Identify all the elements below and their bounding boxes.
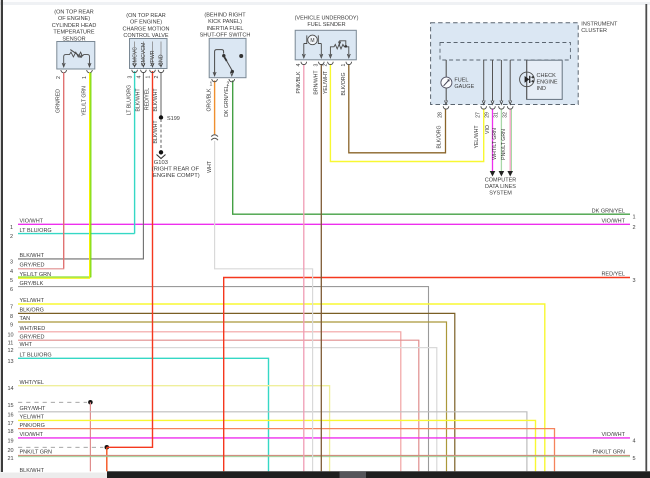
svg-text:YEL/LT GRN: YEL/LT GRN bbox=[20, 272, 52, 278]
svg-text:1: 1 bbox=[210, 82, 213, 88]
svg-text:M: M bbox=[310, 38, 314, 44]
svg-text:ENGINE: ENGINE bbox=[537, 80, 558, 86]
check engine ind LED bbox=[527, 60, 563, 99]
svg-text:OF ENGINE): OF ENGINE) bbox=[130, 20, 162, 26]
wire DK GRN/YEL right1 bbox=[233, 81, 636, 221]
svg-text:ORG/BLK: ORG/BLK bbox=[207, 88, 213, 112]
svg-text:19: 19 bbox=[7, 438, 13, 444]
svg-text:TEMPERATURE: TEMPERATURE bbox=[53, 30, 94, 36]
wire PNK/LT GRN cluster pin32 bbox=[501, 109, 512, 172]
wire dashed row15 bbox=[7, 402, 87, 409]
svg-text:1: 1 bbox=[145, 75, 151, 78]
svg-text:1: 1 bbox=[82, 76, 88, 79]
wire BLK/WHT valve GND to S199 bbox=[153, 72, 161, 117]
svg-text:VIO/WHT: VIO/WHT bbox=[601, 432, 625, 438]
svg-text:(RIGHT REAR OF: (RIGHT REAR OF bbox=[152, 166, 200, 172]
wire dashed row20 bbox=[7, 447, 103, 454]
svg-text:3: 3 bbox=[313, 63, 319, 66]
svg-text:CMCVC: CMCVC bbox=[132, 47, 138, 66]
svg-text:BLK/ORG: BLK/ORG bbox=[20, 308, 44, 314]
component cylinder head temperature sensor bbox=[52, 10, 97, 279]
frame bottom light strip bbox=[0, 473, 107, 478]
svg-text:CLUSTER: CLUSTER bbox=[581, 28, 607, 34]
svg-text:9: 9 bbox=[10, 323, 13, 329]
wire GRN/RED sensor pin2 label bbox=[56, 89, 62, 113]
frame top strip bbox=[0, 0, 650, 5]
svg-text:21: 21 bbox=[7, 456, 13, 462]
svg-text:4: 4 bbox=[136, 75, 142, 78]
wire YEL/LT GRN sensor pin1 bbox=[90, 73, 92, 278]
wire WHT row12 bbox=[7, 342, 436, 472]
wire GRY/WHT row16 bbox=[7, 406, 526, 471]
svg-text:15: 15 bbox=[7, 403, 13, 409]
svg-text:31: 31 bbox=[494, 112, 500, 118]
svg-text:(BEHIND RIGHT: (BEHIND RIGHT bbox=[204, 13, 246, 19]
svg-text:29: 29 bbox=[485, 112, 491, 118]
svg-text:ENGINE COMPT): ENGINE COMPT) bbox=[153, 173, 200, 179]
svg-text:3: 3 bbox=[128, 75, 134, 78]
svg-text:20: 20 bbox=[7, 448, 13, 454]
svg-text:DK GRN/YEL: DK GRN/YEL bbox=[224, 85, 230, 117]
svg-text:VIO/WHT: VIO/WHT bbox=[20, 219, 44, 225]
svg-text:2: 2 bbox=[322, 63, 328, 66]
wire GRY/RED row11 bbox=[8, 334, 419, 471]
svg-text:28: 28 bbox=[438, 112, 444, 118]
svg-text:4: 4 bbox=[296, 63, 302, 66]
svg-text:7: 7 bbox=[10, 305, 13, 311]
svg-text:18: 18 bbox=[7, 429, 13, 435]
svg-text:BLK/ORG: BLK/ORG bbox=[437, 125, 443, 148]
svg-text:(ON TOP REAR: (ON TOP REAR bbox=[54, 10, 93, 16]
wire RED/YEL from valve VPWR bbox=[107, 71, 153, 447]
svg-text:SHUT-OFF SWITCH: SHUT-OFF SWITCH bbox=[200, 33, 251, 39]
wire YEL/LT GRN row5 bbox=[10, 73, 91, 284]
wire DK GRN/YEL inertia pin2 label bbox=[224, 85, 230, 117]
svg-text:5: 5 bbox=[10, 278, 13, 284]
svg-text:BLK/WHT: BLK/WHT bbox=[20, 253, 45, 259]
svg-text:VIO: VIO bbox=[485, 125, 491, 134]
svg-text:11: 11 bbox=[8, 341, 14, 347]
svg-text:10: 10 bbox=[7, 332, 13, 338]
svg-text:4: 4 bbox=[10, 269, 13, 275]
svg-text:3: 3 bbox=[10, 259, 13, 265]
svg-text:CHECK: CHECK bbox=[537, 73, 557, 79]
wire YEL/WHT row17 bbox=[7, 415, 535, 472]
svg-text:WHT: WHT bbox=[207, 160, 213, 173]
svg-text:PNK/LT GRN: PNK/LT GRN bbox=[20, 450, 53, 456]
wire GRN/RED sensor pin2 bbox=[63, 73, 65, 269]
wire PNK/BLK from fuel sender pin4 bbox=[296, 64, 304, 471]
wire WHT/YEL row14 bbox=[7, 380, 329, 471]
svg-text:GRY/RED: GRY/RED bbox=[20, 334, 45, 340]
svg-text:YEL/WHT: YEL/WHT bbox=[20, 415, 45, 421]
wire GRY/RED row4 bbox=[10, 73, 64, 275]
svg-text:YEL/WHT: YEL/WHT bbox=[474, 125, 480, 149]
svg-text:3: 3 bbox=[633, 278, 636, 284]
wire VIO cluster pin29 bbox=[485, 109, 493, 172]
svg-text:BLK/ORG: BLK/ORG bbox=[341, 72, 347, 95]
wire BLK/WHT S199 to G103 bbox=[153, 119, 161, 150]
component fuel sender bbox=[295, 16, 359, 67]
svg-text:VIO/WHT: VIO/WHT bbox=[601, 219, 625, 225]
svg-text:12: 12 bbox=[7, 348, 13, 354]
svg-text:IND: IND bbox=[537, 86, 547, 92]
svg-text:BLK/WHT: BLK/WHT bbox=[135, 88, 141, 112]
svg-text:27: 27 bbox=[476, 112, 482, 118]
wire RED/YEL right3 bbox=[224, 272, 636, 472]
wire LT BLU/ORG row13 bbox=[7, 353, 268, 472]
wire YEL/LT GRN sensor pin1 label bbox=[82, 86, 88, 116]
component instrument cluster bbox=[431, 22, 618, 118]
svg-text:FUEL: FUEL bbox=[454, 78, 468, 84]
svg-text:LT BLU/ORG: LT BLU/ORG bbox=[20, 228, 52, 234]
svg-text:RED/YEL: RED/YEL bbox=[601, 272, 625, 278]
svg-text:WHT/RED: WHT/RED bbox=[20, 326, 46, 332]
wire WHT from connector bbox=[207, 141, 313, 472]
svg-text:WHT/YEL: WHT/YEL bbox=[20, 380, 44, 386]
wire GRY/RED splice15 drop bbox=[89, 402, 91, 471]
svg-text:PNK/BLK: PNK/BLK bbox=[296, 71, 302, 93]
wire BLK/WHT valve CMCVCM label bbox=[135, 88, 141, 112]
resistor thermistor bbox=[64, 52, 90, 66]
svg-text:RED/YEL: RED/YEL bbox=[144, 88, 150, 110]
wire PNK/ORG row18 bbox=[7, 423, 554, 472]
wire VIO/WHT row19 bbox=[7, 432, 635, 444]
svg-text:G103: G103 bbox=[154, 160, 168, 166]
svg-text:6: 6 bbox=[10, 287, 13, 293]
svg-text:DATA LINES: DATA LINES bbox=[485, 184, 516, 190]
component inertia fuel shut-off switch bbox=[200, 13, 251, 88]
svg-text:2: 2 bbox=[56, 76, 62, 79]
svg-text:2: 2 bbox=[154, 75, 160, 78]
svg-text:LT BLU/ORG: LT BLU/ORG bbox=[126, 85, 132, 115]
node splice row15 bbox=[88, 400, 93, 405]
svg-text:PNK/LT GRN: PNK/LT GRN bbox=[593, 450, 626, 456]
svg-text:1: 1 bbox=[341, 63, 347, 66]
wire RED/YEL splice20 drop bbox=[106, 447, 108, 471]
svg-text:CYLINDER HEAD: CYLINDER HEAD bbox=[52, 23, 97, 29]
svg-text:YEL/WHT: YEL/WHT bbox=[323, 70, 329, 94]
wire TAN row9 bbox=[10, 316, 447, 471]
wire WHT/LT GRN cluster pin31 bbox=[492, 109, 501, 172]
svg-text:8: 8 bbox=[10, 314, 13, 320]
svg-text:GRY/WHT: GRY/WHT bbox=[20, 406, 47, 412]
svg-text:(ON TOP REAR: (ON TOP REAR bbox=[126, 13, 165, 19]
svg-text:17: 17 bbox=[7, 421, 13, 427]
frame left bar bbox=[1, 0, 3, 472]
wire WHT/RED row10 bbox=[7, 326, 400, 471]
wire BLK/ORG fuel sender pin1 to cluster pin28 bbox=[341, 64, 446, 153]
svg-text:PNK/ORG: PNK/ORG bbox=[20, 423, 45, 429]
svg-text:LT BLU/ORG: LT BLU/ORG bbox=[20, 353, 52, 359]
svg-text:(VEHICLE UNDERBODY): (VEHICLE UNDERBODY) bbox=[295, 16, 359, 22]
wire LT BLU/ORG valve CMCVC bbox=[126, 71, 134, 234]
svg-text:VPWR: VPWR bbox=[150, 50, 156, 66]
svg-text:S199: S199 bbox=[167, 116, 180, 122]
svg-text:BLK/WHT: BLK/WHT bbox=[153, 88, 159, 112]
svg-text:YEL/LT GRN: YEL/LT GRN bbox=[82, 86, 88, 116]
svg-text:16: 16 bbox=[7, 412, 13, 418]
svg-text:14: 14 bbox=[7, 386, 13, 392]
wire LT BLU/ORG row2 bbox=[10, 228, 135, 240]
frame bottom dark bar bbox=[107, 471, 650, 478]
component charge motion control valve bbox=[122, 13, 169, 78]
wire BLK/ORG row8 bbox=[10, 308, 455, 472]
svg-text:32: 32 bbox=[502, 112, 508, 118]
svg-text:SYSTEM: SYSTEM bbox=[489, 191, 512, 197]
svg-text:GAUGE: GAUGE bbox=[454, 84, 474, 90]
cluster pin stubs bbox=[483, 60, 485, 101]
svg-text:DK GRN/YEL: DK GRN/YEL bbox=[592, 208, 625, 214]
svg-text:GRY/RED: GRY/RED bbox=[20, 263, 45, 269]
svg-text:GRY/BLK: GRY/BLK bbox=[20, 281, 44, 287]
svg-text:2: 2 bbox=[633, 225, 636, 231]
wire BLK/WHT row22 bbox=[20, 468, 45, 474]
svg-text:VIO/WHT: VIO/WHT bbox=[20, 432, 44, 438]
pin cups sensor bbox=[61, 70, 67, 73]
wire RED/YEL valve VPWR label bbox=[144, 88, 150, 110]
svg-text:2: 2 bbox=[227, 82, 230, 88]
svg-text:COMPUTER: COMPUTER bbox=[485, 178, 517, 184]
svg-text:KICK PANEL): KICK PANEL) bbox=[208, 19, 242, 25]
svg-text:GND: GND bbox=[159, 54, 165, 66]
svg-text:INSTRUMENT: INSTRUMENT bbox=[581, 22, 618, 28]
wire YEL/WHT fuel sender pin2 to cluster pin27 bbox=[323, 64, 484, 162]
wire ORG/BLK from inertia switch pin1 bbox=[207, 81, 215, 135]
svg-text:CHARGE MOTION: CHARGE MOTION bbox=[122, 26, 169, 32]
svg-text:BRN/WHT: BRN/WHT bbox=[313, 70, 319, 95]
wire GRY/BLK row6 bbox=[10, 281, 429, 472]
svg-text:WHT/LT GRN: WHT/LT GRN bbox=[492, 128, 498, 160]
node arrows computer data lines bbox=[485, 171, 517, 197]
svg-text:OF ENGINE): OF ENGINE) bbox=[58, 16, 90, 22]
svg-text:TAN: TAN bbox=[20, 316, 31, 322]
svg-text:5: 5 bbox=[633, 456, 636, 462]
connector inline WHT bbox=[211, 135, 218, 140]
switch blade bbox=[215, 50, 224, 75]
fuel gauge U2 bbox=[445, 60, 447, 77]
variable resistor bbox=[330, 44, 348, 56]
svg-text:BLK/WHT: BLK/WHT bbox=[153, 120, 159, 144]
svg-text:2: 2 bbox=[10, 234, 13, 240]
wire YEL/WHT row7 bbox=[10, 298, 545, 471]
svg-text:YEL/WHT: YEL/WHT bbox=[20, 298, 45, 304]
svg-text:13: 13 bbox=[7, 359, 13, 365]
ground G103 bbox=[152, 150, 200, 179]
svg-text:1: 1 bbox=[633, 215, 636, 221]
svg-text:CMCVCM: CMCVCM bbox=[141, 43, 147, 66]
frame right line bbox=[645, 4, 647, 471]
svg-text:WHT: WHT bbox=[20, 342, 33, 348]
svg-text:PNK/LT GRN: PNK/LT GRN bbox=[501, 129, 507, 160]
node S199 bbox=[159, 115, 180, 122]
svg-text:FUEL SENDER: FUEL SENDER bbox=[307, 22, 345, 28]
svg-text:1: 1 bbox=[10, 225, 13, 231]
svg-text:GRN/RED: GRN/RED bbox=[56, 89, 62, 113]
wire PNK/LT GRN row21 bbox=[7, 450, 635, 462]
motor M bbox=[303, 44, 305, 57]
wire VIO/WHT row1 bbox=[10, 219, 636, 231]
wire BLK/WHT row3 bbox=[10, 72, 143, 265]
wire BRN/WHT from fuel sender pin3 bbox=[313, 64, 321, 471]
node splice row20 bbox=[105, 445, 110, 450]
svg-text:4: 4 bbox=[633, 438, 636, 444]
svg-text:INERTIA FUEL: INERTIA FUEL bbox=[207, 26, 244, 32]
